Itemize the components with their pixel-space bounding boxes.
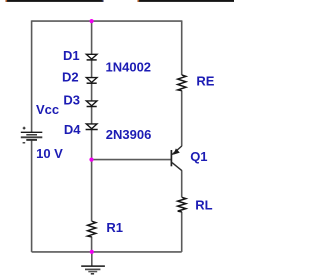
wire D2 to D3	[91, 83, 93, 100]
svg-text:D4: D4	[64, 122, 81, 137]
svg-text:D2: D2	[62, 69, 79, 84]
wire D1 to D2	[91, 60, 93, 78]
wire ground stub	[91, 252, 93, 266]
svg-text:D3: D3	[63, 92, 80, 107]
battery V1 Vcc	[21, 127, 43, 143]
wire D4 to base node	[91, 129, 93, 221]
wire right vertical upper	[181, 20, 183, 75]
ground	[81, 266, 105, 274]
svg-text:1N4002: 1N4002	[106, 59, 152, 74]
resistor RL	[178, 197, 186, 212]
wire collector to RL	[181, 170, 183, 197]
junction node bottom	[90, 250, 94, 254]
wire base horizontal	[92, 159, 171, 161]
top border bar right segment	[138, 0, 235, 2]
junction node base	[89, 158, 93, 162]
svg-text:Q1: Q1	[190, 149, 207, 164]
wire left vertical lower	[31, 140, 33, 252]
svg-text:RL: RL	[195, 198, 212, 213]
svg-text:2N3906: 2N3906	[106, 127, 152, 142]
wire top horizontal	[32, 20, 182, 22]
diode D1	[86, 54, 97, 60]
wire RE to emitter	[181, 91, 183, 147]
wire D3 to D4	[91, 106, 93, 123]
diode D3	[86, 101, 97, 107]
wire R1 to bottom	[91, 237, 93, 252]
transistor Q1	[171, 146, 181, 171]
junction node top	[90, 19, 94, 23]
svg-text:RE: RE	[196, 74, 214, 89]
svg-text:R1: R1	[106, 220, 123, 235]
top border bar left segment	[6, 0, 104, 2]
resistor R1	[88, 221, 96, 237]
wire middle top to D1	[91, 21, 93, 55]
resistor RE	[178, 75, 186, 91]
diode D4	[86, 124, 98, 130]
wire left vertical upper	[31, 20, 33, 132]
diode D2	[86, 78, 97, 84]
wire bottom horizontal	[32, 251, 182, 253]
svg-text:Vcc: Vcc	[36, 102, 59, 117]
svg-text:D1: D1	[63, 48, 80, 63]
svg-text:10 V: 10 V	[36, 146, 63, 161]
wire RL to bottom	[181, 212, 183, 252]
